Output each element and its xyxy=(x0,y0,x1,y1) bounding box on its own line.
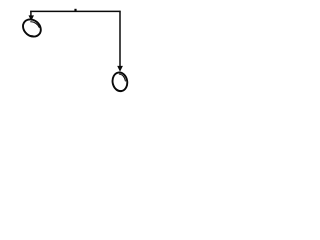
wire: right vertical drop xyxy=(119,11,121,67)
node circle (left, sketchy double stroke) xyxy=(20,16,45,40)
wire: left vertical stub from corner down xyxy=(30,11,32,16)
arrowhead into right node xyxy=(117,66,123,72)
node A junction tick on top wire xyxy=(74,9,76,12)
wire: top horizontal bus xyxy=(30,10,120,12)
arrowhead into left node xyxy=(29,15,35,21)
node circle (right, sketchy double stroke) xyxy=(111,71,129,92)
